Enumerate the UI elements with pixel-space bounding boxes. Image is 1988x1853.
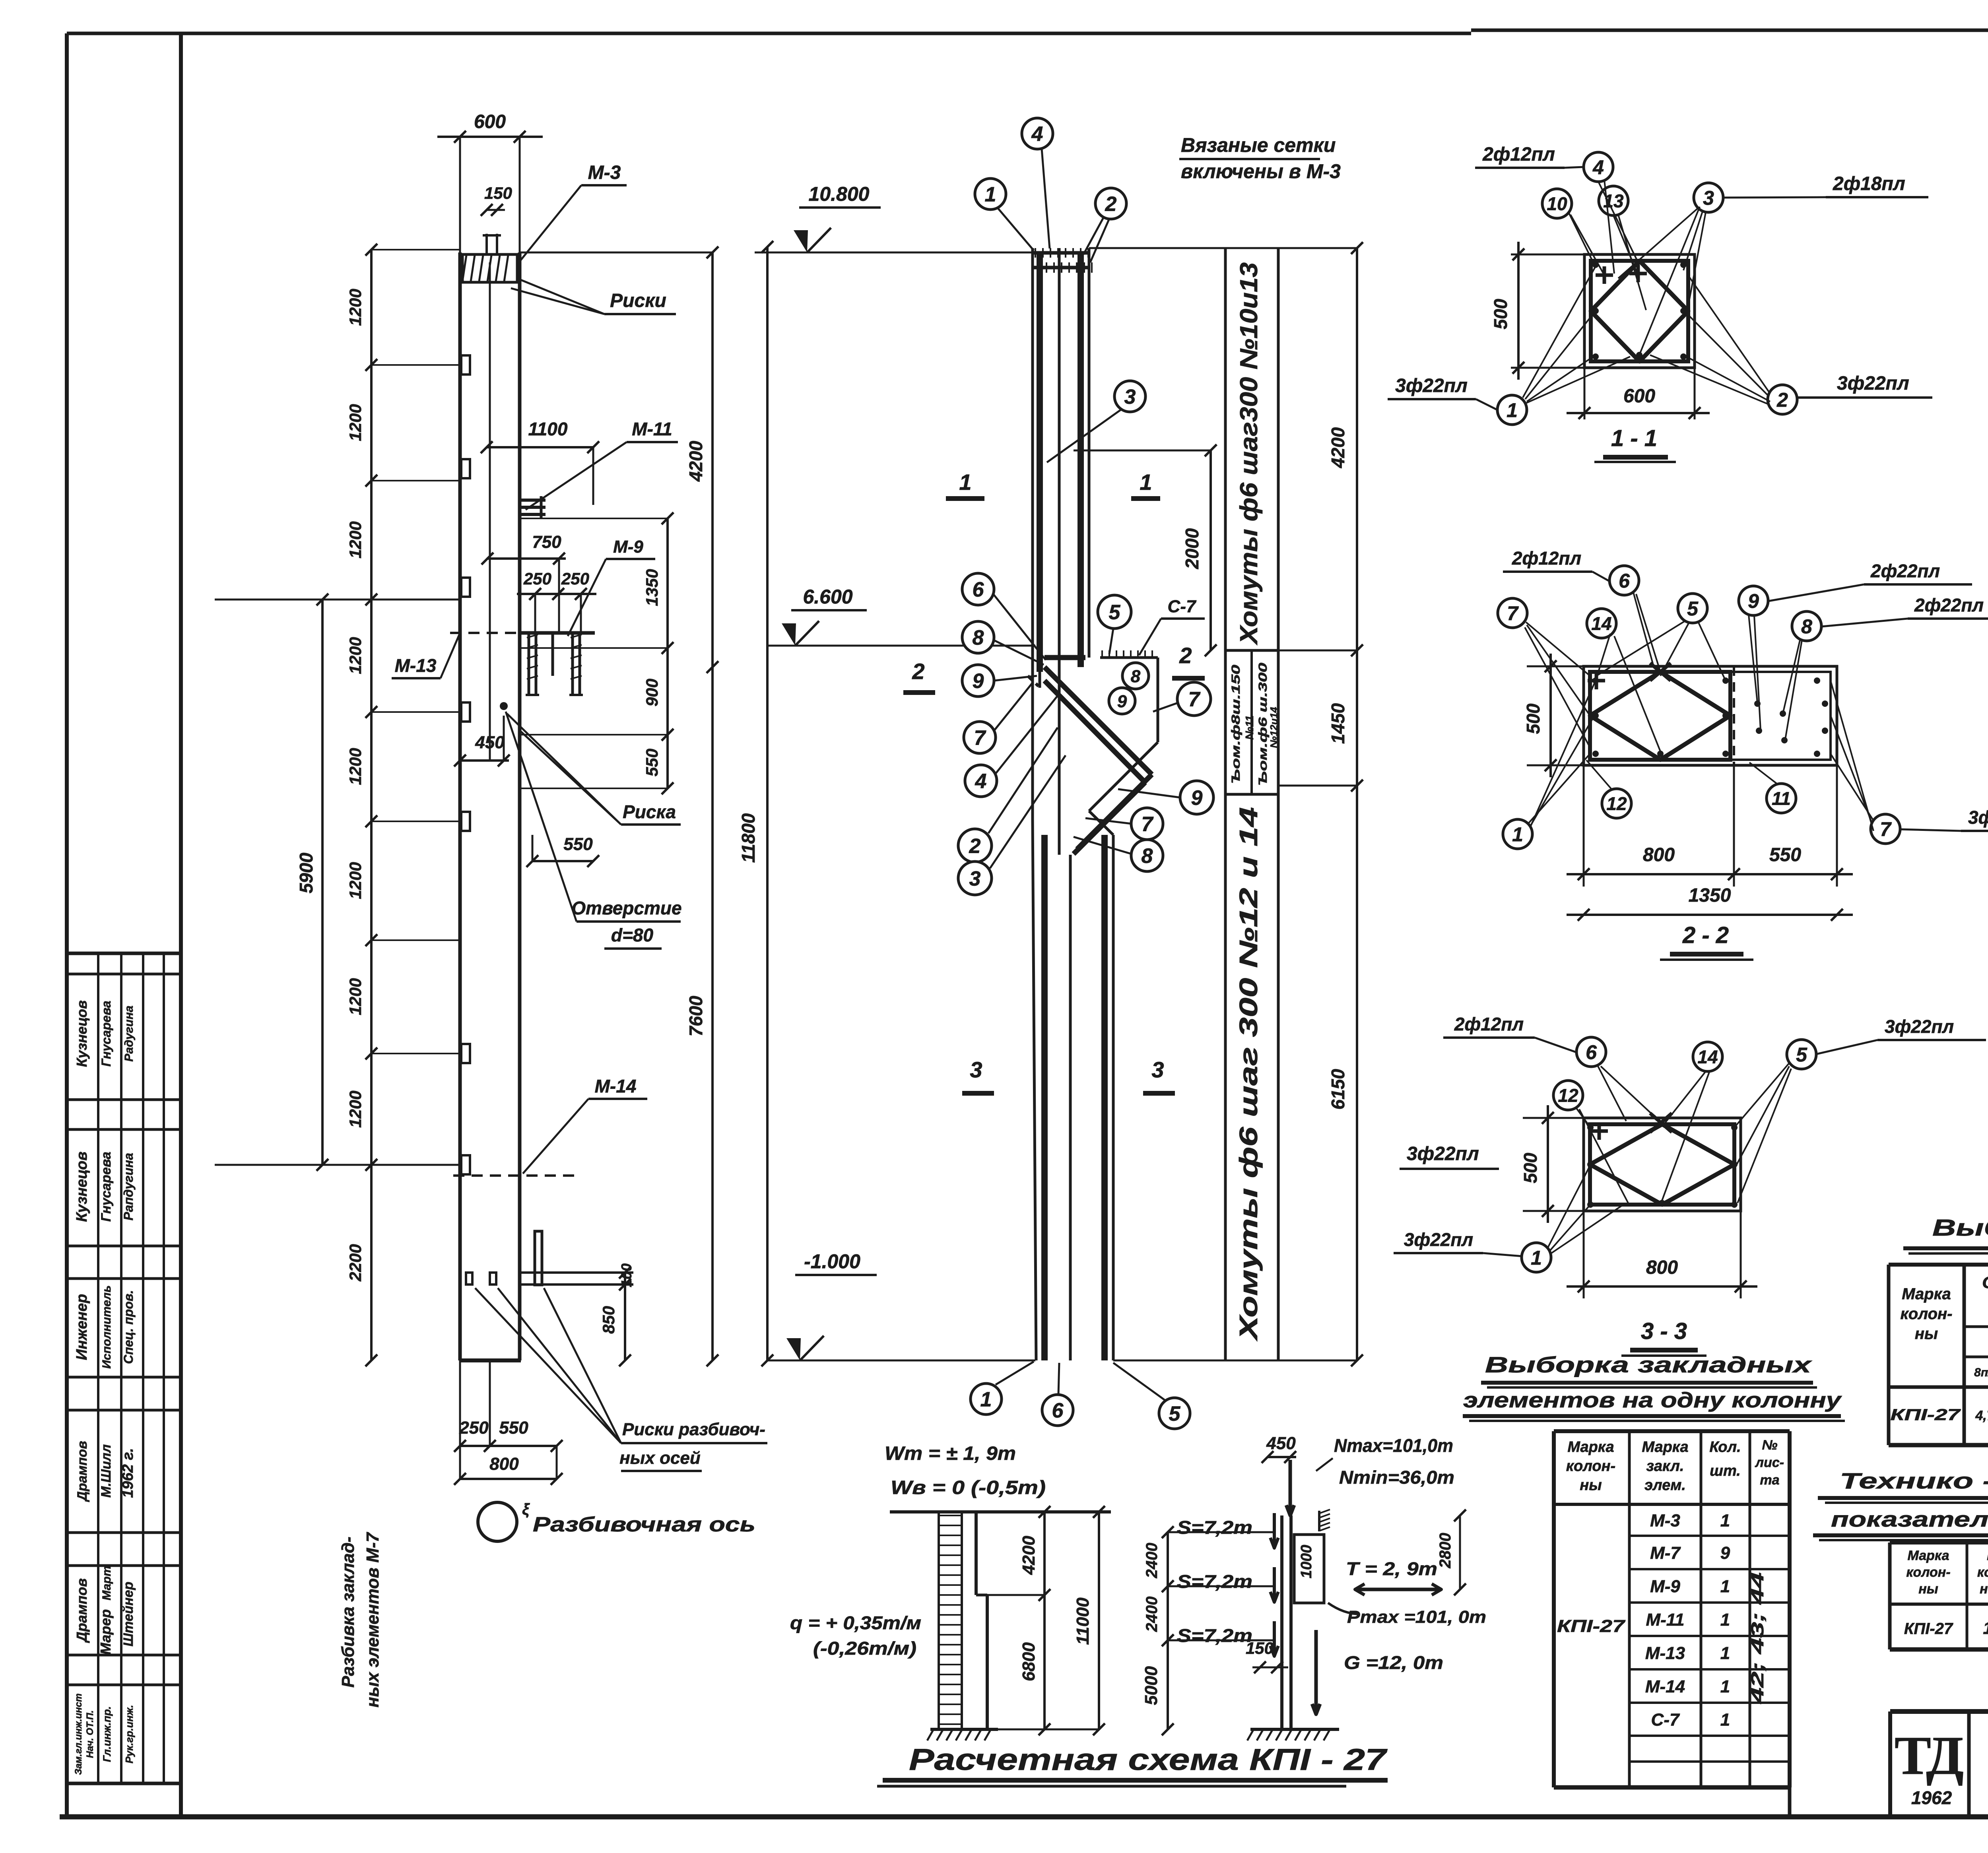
svg-text:2ф22пл: 2ф22пл xyxy=(1870,561,1940,581)
svg-text:Сталь класса А-Ш: Сталь класса А-Ш xyxy=(1982,1273,1988,1292)
svg-text:закл.: закл. xyxy=(1646,1458,1684,1475)
svg-text:4200: 4200 xyxy=(685,440,706,482)
svg-text:500: 500 xyxy=(1523,703,1543,734)
svg-text:колон-: колон- xyxy=(1566,1458,1615,1475)
svg-text:КПI-27: КПI-27 xyxy=(1891,1406,1961,1424)
svg-text:7600: 7600 xyxy=(685,995,706,1036)
svg-text:1200: 1200 xyxy=(346,289,365,326)
svg-text:№12и14: №12и14 xyxy=(1268,707,1280,748)
svg-text:№: № xyxy=(1762,1438,1778,1453)
svg-text:Ъом.ф8ш.150: Ъом.ф8ш.150 xyxy=(1229,665,1242,784)
svg-text:Кол.: Кол. xyxy=(1709,1439,1741,1455)
svg-text:Инженер: Инженер xyxy=(74,1294,90,1360)
svg-text:800: 800 xyxy=(1643,844,1675,865)
svg-text:800: 800 xyxy=(489,1454,519,1474)
svg-text:та: та xyxy=(1760,1473,1779,1488)
svg-text:9: 9 xyxy=(973,670,984,693)
svg-text:7: 7 xyxy=(1880,818,1892,840)
svg-text:1100: 1100 xyxy=(528,419,568,439)
svg-text:2ф18пл: 2ф18пл xyxy=(1833,173,1905,194)
svg-text:750: 750 xyxy=(532,532,561,552)
svg-text:14: 14 xyxy=(1591,613,1611,634)
svg-text:Рапдугина: Рапдугина xyxy=(121,1153,136,1220)
svg-text:2: 2 xyxy=(969,835,981,858)
svg-text:1200: 1200 xyxy=(346,748,365,785)
svg-text:Гл.инж.пр.: Гл.инж.пр. xyxy=(101,1706,113,1762)
svg-text:250: 250 xyxy=(561,569,589,588)
svg-text:3: 3 xyxy=(1703,187,1714,209)
svg-text:Нач. ОТ.П.: Нач. ОТ.П. xyxy=(85,1710,95,1758)
svg-text:ны: ны xyxy=(1918,1581,1938,1597)
svg-text:(-0,26т/м): (-0,26т/м) xyxy=(813,1638,916,1659)
svg-text:250: 250 xyxy=(523,569,551,588)
svg-text:М-3: М-3 xyxy=(588,162,621,183)
svg-text:1: 1 xyxy=(980,1388,992,1411)
svg-text:4,7: 4,7 xyxy=(1975,1408,1988,1423)
svg-text:2ф22пл: 2ф22пл xyxy=(1914,595,1984,615)
svg-text:1 - 1: 1 - 1 xyxy=(1611,425,1657,451)
svg-text:500: 500 xyxy=(1490,299,1511,329)
svg-text:элем.: элем. xyxy=(1644,1477,1686,1494)
svg-text:1000: 1000 xyxy=(1298,1545,1315,1579)
svg-text:Pmax =101, 0т: Pmax =101, 0т xyxy=(1347,1607,1486,1627)
svg-text:d=80: d=80 xyxy=(611,925,654,945)
svg-text:8: 8 xyxy=(1142,845,1153,868)
svg-text:6: 6 xyxy=(973,578,984,601)
svg-text:5: 5 xyxy=(1169,1403,1181,1426)
svg-text:6: 6 xyxy=(1586,1041,1597,1063)
svg-text:КПI-27: КПI-27 xyxy=(1904,1620,1953,1638)
svg-text:Радугина: Радугина xyxy=(122,1005,136,1061)
svg-text:Хомуты ф6 шаг300 №10и13: Хомуты ф6 шаг300 №10и13 xyxy=(1235,262,1263,645)
svg-text:шт.: шт. xyxy=(1710,1463,1741,1479)
svg-text:8: 8 xyxy=(973,627,984,650)
svg-text:Марка: Марка xyxy=(1908,1548,1949,1563)
svg-text:1: 1 xyxy=(1140,470,1152,495)
svg-text:600: 600 xyxy=(474,111,506,132)
svg-text:ных осей: ных осей xyxy=(619,1448,701,1468)
svg-text:4: 4 xyxy=(1592,156,1604,179)
svg-text:5000: 5000 xyxy=(1142,1666,1161,1705)
svg-text:11: 11 xyxy=(1772,788,1791,809)
svg-text:1: 1 xyxy=(1512,823,1523,846)
svg-text:Nmin=36,0т: Nmin=36,0т xyxy=(1339,1467,1454,1488)
svg-text:3ф22пл: 3ф22пл xyxy=(1407,1143,1479,1164)
svg-text:6.600: 6.600 xyxy=(803,586,852,608)
svg-text:1: 1 xyxy=(1531,1247,1542,1269)
svg-text:7: 7 xyxy=(1142,813,1154,836)
svg-text:Разбивочная ось: Разбивочная ось xyxy=(533,1513,755,1536)
svg-text:М-7: М-7 xyxy=(1650,1543,1681,1563)
svg-text:550: 550 xyxy=(1769,844,1801,865)
svg-text:6150: 6150 xyxy=(1328,1069,1348,1110)
svg-text:9: 9 xyxy=(1117,692,1127,711)
svg-text:М-14: М-14 xyxy=(595,1076,637,1096)
svg-text:9: 9 xyxy=(1720,1543,1730,1563)
svg-text:Выборка стали на одну колон: Выборка стали на одну колонну (кг) xyxy=(1932,1215,1988,1241)
svg-text:1200: 1200 xyxy=(346,404,365,441)
svg-text:2: 2 xyxy=(1105,193,1117,216)
svg-text:колон-: колон- xyxy=(1901,1305,1953,1323)
svg-text:9: 9 xyxy=(1191,787,1203,810)
svg-text:2: 2 xyxy=(1776,389,1788,411)
svg-text:1: 1 xyxy=(1720,1710,1730,1730)
svg-text:1: 1 xyxy=(1720,1610,1730,1630)
svg-text:7: 7 xyxy=(974,727,986,750)
svg-text:Марка: Марка xyxy=(1902,1285,1951,1303)
svg-text:1962 г.: 1962 г. xyxy=(120,1448,136,1498)
svg-text:2ф12пл: 2ф12пл xyxy=(1454,1014,1524,1034)
svg-text:№11: №11 xyxy=(1243,715,1256,739)
svg-text:10: 10 xyxy=(1547,194,1567,214)
svg-text:лис-: лис- xyxy=(1755,1455,1784,1470)
svg-text:Марер: Марер xyxy=(97,1609,114,1655)
svg-text:7: 7 xyxy=(1188,688,1201,711)
svg-text:ных элементов М-7: ных элементов М-7 xyxy=(363,1531,382,1707)
svg-text:550: 550 xyxy=(563,834,593,854)
svg-text:9: 9 xyxy=(1748,590,1759,612)
svg-text:М-9: М-9 xyxy=(1650,1577,1680,1596)
svg-text:Дрампов: Дрампов xyxy=(74,1578,90,1643)
svg-text:включены в М-3: включены в М-3 xyxy=(1181,160,1341,182)
svg-text:М-13: М-13 xyxy=(1645,1643,1685,1663)
svg-text:450: 450 xyxy=(475,733,505,752)
svg-text:Гнусарева: Гнусарева xyxy=(99,1001,113,1067)
svg-text:6800: 6800 xyxy=(1019,1642,1039,1681)
svg-text:1: 1 xyxy=(1720,1577,1730,1596)
svg-text:3: 3 xyxy=(969,867,981,891)
svg-text:Т = 2, 9т: Т = 2, 9т xyxy=(1346,1558,1437,1579)
svg-text:1200: 1200 xyxy=(346,637,365,674)
svg-text:3ф22пл: 3ф22пл xyxy=(1395,375,1468,396)
svg-text:1350: 1350 xyxy=(643,569,661,606)
svg-text:Кузнецов: Кузнецов xyxy=(74,1000,90,1067)
svg-text:ξ: ξ xyxy=(522,1501,530,1518)
svg-text:850: 850 xyxy=(599,1306,618,1334)
svg-text:550: 550 xyxy=(643,749,661,776)
svg-text:Риска: Риска xyxy=(623,801,676,822)
svg-text:показатели на одну колонну: показатели на одну колонну xyxy=(1831,1508,1988,1531)
svg-text:500: 500 xyxy=(1520,1153,1541,1183)
svg-text:5900: 5900 xyxy=(296,852,316,893)
svg-text:1: 1 xyxy=(985,183,996,206)
svg-text:Зам.гл.инж.инст: Зам.гл.инж.инст xyxy=(73,1694,84,1775)
svg-text:4: 4 xyxy=(975,770,987,793)
svg-text:Отверстие: Отверстие xyxy=(571,898,681,918)
svg-text:колон-: колон- xyxy=(1977,1565,1988,1580)
svg-text:q = + 0,35т/м: q = + 0,35т/м xyxy=(790,1612,921,1633)
svg-text:Штейнер: Штейнер xyxy=(121,1582,136,1647)
svg-text:600: 600 xyxy=(1623,386,1655,407)
svg-text:1200: 1200 xyxy=(346,978,365,1015)
svg-text:колон-: колон- xyxy=(1906,1565,1950,1580)
svg-text:Выборка закладных: Выборка закладных xyxy=(1485,1352,1813,1377)
svg-text:11,6: 11,6 xyxy=(1983,1618,1988,1638)
svg-text:Nmax=101,0т: Nmax=101,0т xyxy=(1334,1435,1453,1456)
svg-text:1: 1 xyxy=(1720,1643,1730,1663)
svg-text:М-3: М-3 xyxy=(1650,1511,1680,1531)
svg-text:1962: 1962 xyxy=(1911,1787,1952,1808)
svg-text:Риски: Риски xyxy=(610,290,666,311)
svg-text:14: 14 xyxy=(1697,1047,1718,1067)
svg-text:Марка: Марка xyxy=(1642,1439,1688,1455)
svg-text:ны: ны xyxy=(1915,1325,1938,1343)
svg-text:3ф22пл: 3ф22пл xyxy=(1885,1016,1954,1037)
svg-text:М-14: М-14 xyxy=(1645,1677,1685,1696)
svg-text:Вязаные сетки: Вязаные сетки xyxy=(1181,134,1336,156)
svg-text:Технико - экономические: Технико - экономические xyxy=(1840,1468,1988,1493)
svg-text:3: 3 xyxy=(1124,386,1136,409)
svg-text:250: 250 xyxy=(459,1418,489,1438)
svg-text:Wв = 0 (-0,5т): Wв = 0 (-0,5т) xyxy=(891,1477,1046,1498)
svg-text:Кузнецов: Кузнецов xyxy=(74,1151,90,1222)
svg-text:М-11: М-11 xyxy=(1646,1610,1685,1630)
svg-text:6: 6 xyxy=(1619,570,1630,592)
svg-text:3: 3 xyxy=(1151,1057,1164,1082)
svg-text:2ф12пл: 2ф12пл xyxy=(1512,548,1581,569)
svg-text:КПI-27: КПI-27 xyxy=(1557,1616,1626,1636)
svg-text:С-7: С-7 xyxy=(1651,1710,1680,1730)
svg-text:ТД: ТД xyxy=(1895,1725,1963,1786)
svg-text:Марка: Марка xyxy=(1567,1439,1614,1455)
svg-text:4: 4 xyxy=(1031,123,1043,146)
svg-text:2 - 2: 2 - 2 xyxy=(1682,922,1729,948)
svg-text:М-11: М-11 xyxy=(632,419,672,439)
svg-text:2800: 2800 xyxy=(1437,1533,1454,1569)
svg-text:S=7,2т: S=7,2т xyxy=(1177,1625,1252,1646)
svg-text:1200: 1200 xyxy=(346,521,365,558)
svg-text:1: 1 xyxy=(1720,1677,1730,1696)
svg-text:450: 450 xyxy=(1266,1434,1296,1453)
svg-text:12: 12 xyxy=(1558,1085,1578,1106)
svg-text:3ф22пл: 3ф22пл xyxy=(1404,1229,1473,1250)
svg-text:Март: Март xyxy=(100,1566,113,1600)
svg-text:150: 150 xyxy=(1246,1639,1274,1657)
svg-text:3 - 3: 3 - 3 xyxy=(1641,1318,1687,1344)
svg-text:М.Шилл: М.Шилл xyxy=(99,1444,114,1498)
svg-text:150: 150 xyxy=(484,184,512,202)
svg-text:Рук.гр.инж.: Рук.гр.инж. xyxy=(123,1705,135,1763)
svg-text:ны: ны xyxy=(1580,1477,1602,1494)
svg-text:М-13: М-13 xyxy=(395,655,437,676)
svg-text:М-9: М-9 xyxy=(613,537,643,557)
svg-text:11000: 11000 xyxy=(1073,1597,1093,1645)
svg-text:42; 43; 44: 42; 43; 44 xyxy=(1748,1572,1767,1704)
svg-text:элементов на одну колонну: элементов на одну колонну xyxy=(1463,1388,1842,1412)
svg-text:2400: 2400 xyxy=(1143,1543,1161,1579)
svg-text:5: 5 xyxy=(1687,598,1699,620)
svg-text:-1.000: -1.000 xyxy=(804,1250,860,1273)
svg-text:2: 2 xyxy=(912,659,924,684)
svg-text:1: 1 xyxy=(1507,399,1518,421)
svg-text:Хомуты ф6 шаг 300 №12 и 14: Хомуты ф6 шаг 300 №12 и 14 xyxy=(1234,807,1263,1341)
svg-text:Разбивка заклад-: Разбивка заклад- xyxy=(338,1537,358,1688)
svg-text:3ф22пл: 3ф22пл xyxy=(1968,807,1988,828)
svg-text:Дрампов: Дрампов xyxy=(75,1441,90,1502)
svg-text:7: 7 xyxy=(1507,602,1519,625)
svg-text:550: 550 xyxy=(499,1418,528,1438)
svg-text:1: 1 xyxy=(959,470,971,495)
svg-text:1200: 1200 xyxy=(346,862,365,899)
svg-text:1350: 1350 xyxy=(1689,885,1731,906)
svg-text:12: 12 xyxy=(1606,794,1627,814)
svg-text:S=7,2т: S=7,2т xyxy=(1177,1571,1252,1592)
svg-text:8пл: 8пл xyxy=(1974,1366,1988,1379)
svg-text:8: 8 xyxy=(1801,615,1812,638)
svg-text:100: 100 xyxy=(618,1263,635,1287)
svg-text:Риски разбивоч-: Риски разбивоч- xyxy=(622,1420,765,1439)
svg-text:Исполнитель: Исполнитель xyxy=(100,1285,113,1369)
svg-text:2400: 2400 xyxy=(1143,1597,1161,1632)
svg-text:1450: 1450 xyxy=(1328,703,1348,744)
svg-text:8: 8 xyxy=(1131,667,1141,686)
svg-text:ны, т: ны, т xyxy=(1980,1581,1988,1597)
svg-text:Гнусарева: Гнусарева xyxy=(99,1152,114,1222)
svg-text:11800: 11800 xyxy=(738,813,759,863)
svg-text:4200: 4200 xyxy=(1019,1536,1039,1575)
svg-text:Расчетная схема КПI - 27: Расчетная схема КПI - 27 xyxy=(909,1743,1388,1777)
svg-text:1200: 1200 xyxy=(346,1090,365,1127)
svg-text:Wт = ± 1, 9т: Wт = ± 1, 9т xyxy=(885,1443,1016,1464)
svg-text:G =12, 0т: G =12, 0т xyxy=(1344,1652,1443,1673)
svg-text:1: 1 xyxy=(1720,1511,1730,1531)
svg-text:S=7,2т: S=7,2т xyxy=(1177,1517,1252,1538)
svg-text:5: 5 xyxy=(1796,1044,1807,1066)
svg-text:6: 6 xyxy=(1052,1399,1064,1422)
svg-text:10.800: 10.800 xyxy=(809,183,870,205)
svg-text:2000: 2000 xyxy=(1182,528,1202,569)
svg-text:Спец. пров.: Спец. пров. xyxy=(121,1290,136,1364)
svg-text:2200: 2200 xyxy=(346,1244,365,1281)
svg-text:4200: 4200 xyxy=(1328,427,1348,468)
svg-text:3ф22пл: 3ф22пл xyxy=(1837,373,1909,394)
svg-text:2ф12пл: 2ф12пл xyxy=(1482,144,1555,165)
svg-text:3: 3 xyxy=(970,1057,982,1082)
svg-text:5: 5 xyxy=(1109,601,1121,624)
svg-text:С-7: С-7 xyxy=(1168,597,1197,616)
svg-text:2: 2 xyxy=(1179,643,1192,668)
svg-text:900: 900 xyxy=(643,679,661,706)
svg-text:800: 800 xyxy=(1646,1257,1678,1278)
